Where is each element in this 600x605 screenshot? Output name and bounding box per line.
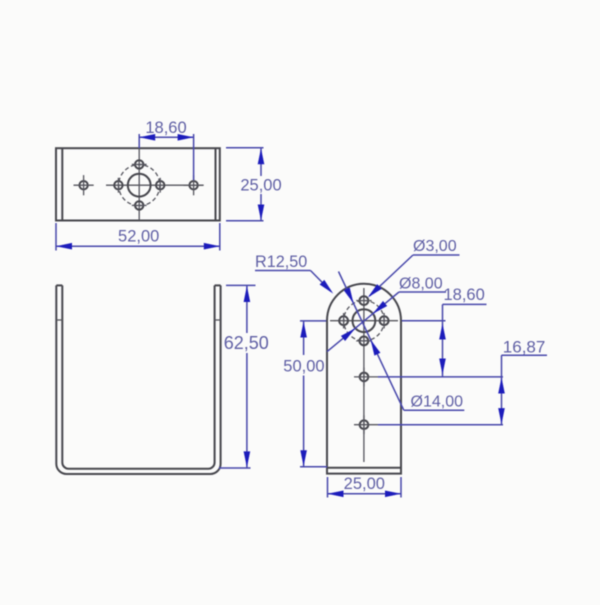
dimension 18,60 top: right arrow xyxy=(178,134,194,141)
dimension 25,00 right: up arrow xyxy=(258,148,265,164)
front view left wall top cap xyxy=(56,284,62,286)
svg-text:18,60: 18,60 xyxy=(444,286,485,304)
side view small hole Ø3 bottom xyxy=(356,337,371,346)
svg-text:52,00: 52,00 xyxy=(118,228,159,246)
dimension 62,50: extension lines xyxy=(219,285,256,468)
leader Ø14,00: lower arrow xyxy=(371,340,381,356)
front view right wall bend mark xyxy=(215,319,221,321)
dimension 50,00: extension lines xyxy=(300,321,327,467)
svg-text:Ø8,00: Ø8,00 xyxy=(399,276,443,293)
dimension 25,00 right: extension lines xyxy=(226,148,264,221)
top view left bend line xyxy=(61,148,63,220)
dimension 50,00: down arrow xyxy=(300,450,307,466)
front view U-channel outer outline xyxy=(56,285,220,474)
dimension 16,87: up arrow xyxy=(498,378,505,394)
side view small hole Ø3 top xyxy=(356,296,371,305)
top view vertical centerline xyxy=(138,148,140,220)
dimension 25,00 bottom: extension lines xyxy=(328,477,402,498)
side view bolt circle Ø14 (dashed) xyxy=(344,301,384,341)
dimension 18,60 side: hole3 extension xyxy=(378,376,503,378)
side view base plate inner line xyxy=(327,467,401,469)
leader R12,50: arrow xyxy=(320,280,334,294)
svg-text:R12,50: R12,50 xyxy=(255,253,307,271)
leader Ø14,00: leader line through bolt circle xyxy=(339,272,404,411)
top view far right hole xyxy=(184,175,204,195)
dimension 50,00: dimension line xyxy=(303,321,305,467)
side view horizontal centerline xyxy=(330,320,398,322)
dimension 18,60 top: left arrow xyxy=(139,134,155,141)
front view U-channel inner outline xyxy=(62,285,214,468)
top view small hole Ø3 top xyxy=(132,160,147,168)
svg-text:25,00: 25,00 xyxy=(344,475,385,493)
dimension 18,60 side: up arrow xyxy=(439,324,446,340)
dimension 62,50: up arrow xyxy=(244,286,251,302)
dimension 18,60 side: dimension line xyxy=(442,304,444,377)
top view small hole Ø3 left xyxy=(114,178,122,193)
side view outline with rounded top R12,50 xyxy=(327,284,401,474)
svg-text:25,00: 25,00 xyxy=(240,177,281,195)
dimension 25,00 bottom: right arrow xyxy=(385,491,401,498)
dimension 25,00 bottom: left arrow xyxy=(328,491,344,498)
dimension 52,00: extension lines xyxy=(56,223,220,251)
dimension 18,60 side: centerline extension xyxy=(402,320,446,322)
leader R12,50: leader line xyxy=(311,271,332,292)
dimension 52,00: right arrow xyxy=(204,243,220,250)
dimension 50,00: up arrow xyxy=(300,322,307,338)
dimension 18,60 side: underline xyxy=(443,303,487,305)
leader R12,50: underline xyxy=(255,270,311,272)
side view lower hole 3 xyxy=(354,368,378,387)
dimension 62,50: dimension line xyxy=(246,285,248,468)
side view vertical centerline xyxy=(363,288,365,462)
dimension 16,87: dimension line xyxy=(501,355,503,425)
top view small hole Ø3 right xyxy=(156,178,164,193)
side view small hole Ø3 right xyxy=(380,313,389,328)
dimension 52,00: left arrow xyxy=(56,243,72,250)
svg-text:16,87: 16,87 xyxy=(503,338,546,357)
dimension 16,87: underline xyxy=(502,354,548,356)
svg-text:50,00: 50,00 xyxy=(283,358,324,376)
svg-text:Ø14,00: Ø14,00 xyxy=(411,394,464,411)
dimension 52,00: dimension line xyxy=(56,245,220,247)
side view small hole Ø3 left xyxy=(339,313,348,328)
front view left wall bend mark xyxy=(56,319,62,321)
leader Ø3,00: leader line xyxy=(370,255,414,296)
leader Ø3,00: underline xyxy=(413,254,460,256)
leader Ø8,00: lower arrow xyxy=(341,328,355,341)
dimension 18,60 top: dimension line xyxy=(139,136,193,138)
leader Ø8,00: underline xyxy=(399,291,446,293)
top view plate outline xyxy=(56,148,220,220)
dimension 16,87: down arrow xyxy=(498,408,505,424)
front view right wall top cap xyxy=(215,284,221,286)
leader Ø8,00: leader line through hole xyxy=(327,292,399,352)
dimension 18,60 side: down arrow xyxy=(439,359,446,375)
dimension 25,00 right: dimension line xyxy=(260,148,262,221)
leader Ø3,00: arrow xyxy=(368,284,382,297)
svg-text:18,60: 18,60 xyxy=(145,119,186,137)
svg-text:Ø3,00: Ø3,00 xyxy=(413,238,457,255)
dimension 16,87: hole4 extension xyxy=(378,424,503,426)
top view bolt circle Ø14 (dashed) xyxy=(119,165,160,206)
side view lower hole 4 xyxy=(354,415,378,434)
side view center hole Ø8 xyxy=(353,309,376,332)
top view far left hole xyxy=(74,175,94,195)
leader Ø8,00: upper arrow xyxy=(373,301,387,314)
leader Ø14,00: underline xyxy=(404,409,465,411)
dimension 25,00 bottom: dimension line xyxy=(328,493,402,495)
top view small hole Ø3 bottom xyxy=(132,201,147,209)
dimension 18,60 top: extension lines xyxy=(139,134,193,180)
top view center hole Ø8 xyxy=(128,174,151,197)
top view right bend line xyxy=(215,148,217,220)
dimension 62,50: down arrow xyxy=(244,451,251,467)
leader Ø14,00: upper arrow xyxy=(344,287,354,303)
top view horizontal centerline xyxy=(106,184,203,186)
svg-text:62,50: 62,50 xyxy=(224,333,269,353)
dimension 25,00 right: down arrow xyxy=(258,205,265,221)
